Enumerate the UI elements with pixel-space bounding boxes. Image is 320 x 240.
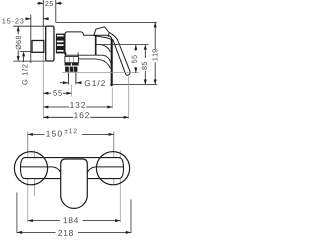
wall line	[30, 15, 32, 64]
handle front face	[111, 40, 113, 86]
extension line B (escutcheon front x=55.8)	[55, 0, 57, 22]
dimension 85 right (vertical)	[142, 45, 147, 85]
bottom reference line y=84.5	[110, 84, 157, 86]
left escutcheon circle	[14, 152, 47, 185]
extension line 162 right (grey)	[128, 77, 130, 119]
extension line y=26.2 (escutcheon top)	[13, 25, 46, 27]
dimension 132	[43, 102, 112, 108]
dimension 119 right (vertical)	[152, 22, 157, 84]
dimension 184	[28, 217, 121, 223]
extension line y=61.1 (escutcheon bottom)	[13, 60, 46, 62]
extension line aux left (grey)	[34, 150, 36, 196]
extension line 184 right (grey)	[119, 151, 121, 223]
dimension 55 bottom	[43, 90, 71, 95]
top reference line y=22.4	[56, 21, 157, 23]
lever (back quad + band)	[94, 27, 130, 76]
connection nut	[56, 34, 65, 54]
dimension 162	[43, 112, 128, 119]
G 1/2 left label	[20, 51, 31, 84]
bar mid silhouette line right	[87, 167, 123, 173]
cartridge cap	[83, 35, 112, 55]
dimension Ø68	[16, 26, 21, 61]
outlet pipe G1/2	[68, 72, 76, 85]
dimension 218	[17, 230, 131, 236]
union flange	[32, 41, 44, 53]
seal band	[65, 63, 79, 66]
reference line y=44.8	[101, 44, 149, 46]
extension line 132 right (grey)	[111, 88, 113, 109]
bar mid silhouette line left	[21, 167, 61, 173]
G1/2 outlet label	[60, 80, 105, 86]
dimension 55 right (vertical)	[132, 45, 138, 73]
body block	[65, 32, 103, 55]
right escutcheon circle	[96, 152, 129, 185]
handle grip (front)	[61, 159, 88, 208]
dimension 15-23	[2, 17, 48, 23]
extension line 150 left (grey)	[27, 132, 29, 223]
outlet valve box	[65, 52, 79, 62]
extension line 218 left (dark)	[16, 193, 18, 234]
extension line 150 right (grey)	[113, 132, 115, 186]
outlet centerline extension (grey)	[71, 85, 73, 97]
dimension 25	[37, 1, 63, 6]
extension line A (mounting face x=43.3)	[42, 0, 44, 119]
extension line 218 right (dark)	[130, 200, 132, 234]
body underside curves	[78, 55, 111, 68]
reference line y=72.6 (grey)	[62, 72, 139, 74]
dimension 150±12	[28, 129, 114, 137]
escutcheon (side)	[46, 26, 54, 61]
body bar	[21, 158, 124, 179]
knurled ring	[65, 67, 77, 72]
